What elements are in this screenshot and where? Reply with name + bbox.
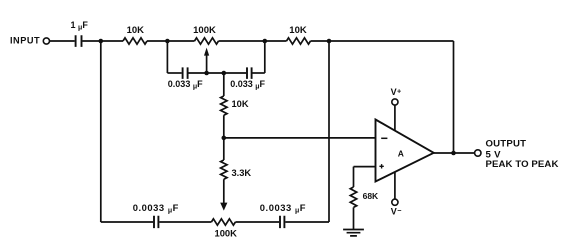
svg-text:0.033 μF: 0.033 μF — [168, 79, 203, 91]
wire: feedback vertical right side — [453, 41, 455, 153]
wire: C4 to P2 — [159, 221, 211, 223]
wire: R1 to node B — [147, 40, 167, 42]
resistor R2 10K — [287, 38, 311, 44]
svg-text:3.3K: 3.3K — [232, 168, 252, 178]
capacitor C4 0.0033uF plates — [154, 216, 158, 228]
svg-text:0.033 μF: 0.033 μF — [230, 79, 265, 91]
capacitor C3 0.033uF plates — [247, 67, 252, 79]
junction wiper node W — [204, 71, 209, 76]
wire: node B to P1 — [167, 40, 194, 42]
wire: op-amp output to output terminal — [434, 152, 475, 154]
wire: node C to R2 — [265, 40, 287, 42]
wire: V- lead — [394, 173, 396, 200]
V+ supply terminal — [392, 99, 398, 105]
wire: P2 to C5 — [235, 221, 279, 223]
op-amp non-inverting pin plus sign — [379, 164, 383, 168]
wire: riser up to node C — [264, 41, 266, 73]
capacitor C5 0.0033uF plates — [280, 216, 284, 228]
junction output node — [451, 151, 456, 156]
op-amp inverting pin minus sign — [381, 137, 387, 139]
wire: P1 to node C — [219, 40, 265, 42]
wire: C3 to cap row right riser — [253, 72, 265, 74]
wire: node F to C3 — [224, 72, 246, 74]
svg-text:10K: 10K — [289, 25, 307, 36]
junction node A — [99, 39, 104, 44]
svg-text:V−: V− — [391, 206, 402, 216]
wire: node A to R1 — [101, 40, 123, 42]
junction node F — [222, 71, 227, 76]
junction node G — [222, 136, 227, 141]
output terminal circle — [475, 150, 481, 156]
wiper arrow stem of P1 — [206, 55, 208, 73]
wiper arrowhead of P2 — [220, 203, 227, 211]
wiper arrowhead of P1 — [204, 48, 209, 56]
wire: node B down to cap row — [166, 41, 168, 73]
wire: C1 to node A — [82, 40, 100, 42]
wire: R3 to node G — [223, 115, 225, 138]
wire: corner down to R5 — [353, 167, 355, 187]
V- supply terminal — [392, 199, 398, 205]
wire: R5 to ground — [353, 207, 355, 229]
wire: R2 to node D — [311, 40, 330, 42]
svg-text:OUTPUT: OUTPUT — [486, 139, 527, 150]
svg-text:INPUT: INPUT — [10, 36, 40, 46]
op-amp U1 triangle — [376, 120, 434, 182]
wire: node A down left side — [100, 41, 102, 222]
wire: input terminal to C1 — [50, 40, 75, 42]
potentiometer P1 100K element — [195, 38, 219, 44]
wire: node G to op-amp inverting input — [224, 137, 376, 139]
svg-text:68K: 68K — [363, 191, 379, 201]
wire: bottom rail to C4 — [101, 221, 153, 223]
junction node B — [165, 39, 170, 44]
svg-text:100K: 100K — [193, 25, 216, 36]
svg-text:10K: 10K — [232, 99, 249, 109]
wire: V+ lead — [394, 105, 396, 131]
svg-text:A: A — [398, 149, 404, 159]
svg-text:V+: V+ — [391, 87, 402, 98]
input terminal circle — [43, 38, 49, 44]
capacitor C1 1uF plates — [76, 35, 82, 47]
svg-text:1 μF: 1 μF — [71, 20, 89, 32]
svg-text:0.0033 μF: 0.0033 μF — [260, 202, 306, 215]
wire: node D to top-right corner — [329, 40, 454, 42]
junction node C — [263, 39, 268, 44]
wire: wiper node to node F — [207, 72, 224, 74]
wire: C5 to bottom-right corner — [285, 221, 329, 223]
resistor R5 68K — [350, 187, 356, 207]
resistor R4 3.3K — [221, 160, 227, 179]
wire: cap row left segment — [167, 72, 181, 74]
wiper arrow stem of P2 — [223, 179, 225, 203]
resistor R3 10K vertical — [221, 96, 227, 115]
resistor R1 10K — [123, 38, 147, 44]
wire: right riser node D to bottom rail — [328, 41, 330, 222]
junction node D — [327, 39, 332, 44]
svg-text:0.0033 μF: 0.0033 μF — [133, 202, 179, 215]
svg-text:100K: 100K — [214, 227, 237, 238]
wire: node G down to R4 — [223, 138, 225, 160]
wire: node F down to R3 — [223, 73, 225, 96]
capacitor C2 0.033uF plates — [183, 67, 188, 79]
svg-text:PEAK TO PEAK: PEAK TO PEAK — [486, 159, 559, 170]
wire: op-amp non-inverting input to corner — [354, 166, 376, 168]
potentiometer P2 100K element — [211, 219, 235, 225]
wire: C2 to wiper node — [189, 72, 207, 74]
ground symbol — [343, 230, 364, 236]
svg-text:10K: 10K — [127, 25, 145, 36]
